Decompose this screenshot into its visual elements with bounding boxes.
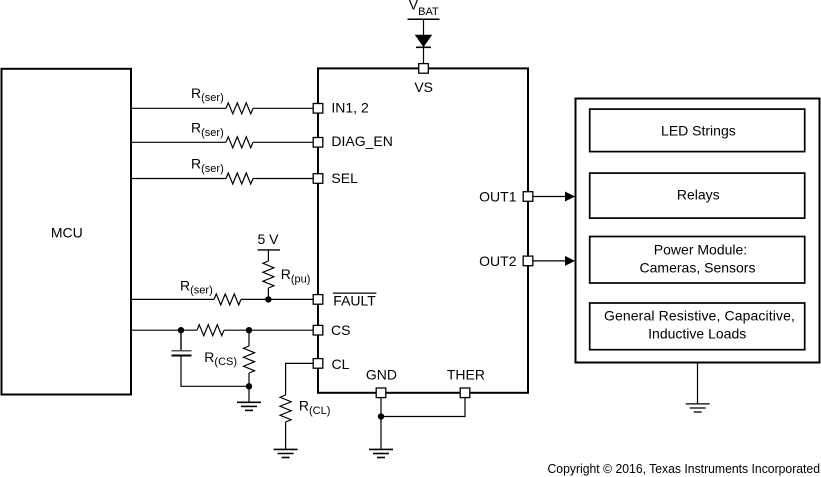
pin GND (366, 367, 397, 398)
pin VS (414, 64, 433, 95)
diode D1 (416, 35, 432, 47)
svg-text:MCU: MCU (51, 225, 83, 241)
MCU block (2, 69, 132, 395)
resistor on CS net (197, 325, 224, 336)
svg-text:CS: CS (331, 322, 350, 338)
wire diode cathode to VS pin (423, 47, 425, 63)
ground (R(CL)) (274, 449, 298, 457)
pin CL (313, 356, 349, 372)
pin DIAG_EN (313, 133, 393, 149)
svg-text:SEL: SEL (331, 170, 358, 186)
svg-text:Power Module:: Power Module: (654, 241, 747, 257)
svg-text:GND: GND (366, 367, 397, 383)
pin OUT2 (479, 253, 533, 269)
svg-text:DIAG_EN: DIAG_EN (331, 133, 392, 149)
resistor R(ser) on FAULT (180, 277, 241, 305)
svg-text:R(CL): R(CL) (299, 398, 331, 417)
svg-text:Inductive Loads: Inductive Loads (648, 325, 746, 341)
wire MCU to CS net (131, 329, 197, 331)
resistor R(CS) (204, 330, 254, 386)
wire junction to ground (380, 417, 382, 450)
loads outer box (576, 99, 820, 363)
wire THER pin down and across to GND (381, 398, 465, 417)
wire CS junction to capacitor (180, 330, 182, 351)
pin OUT1 (479, 189, 533, 205)
svg-text:IN1, 2: IN1, 2 (331, 99, 369, 115)
svg-text:Relays: Relays (677, 186, 720, 202)
supply V_BAT (408, 0, 440, 19)
svg-text:5 V: 5 V (258, 231, 280, 247)
pin SEL (313, 170, 358, 186)
svg-text:OUT1: OUT1 (479, 189, 517, 205)
svg-text:R(ser): R(ser) (191, 120, 224, 139)
load box General Loads (590, 303, 805, 350)
wire junction to ground (248, 386, 250, 402)
wire R(CL) to ground (285, 422, 287, 449)
svg-text:OUT2: OUT2 (479, 253, 517, 269)
junction CS / capacitor (178, 327, 184, 333)
pin IN1,2 (313, 99, 369, 115)
wire 5V bar to R(pu) (267, 250, 269, 261)
wire OUT1 to load box (533, 196, 566, 198)
wire resistor to IN1,2 pin (253, 107, 313, 109)
wire MCU to resistor (DIAG_EN net) (131, 141, 226, 143)
resistor R(CL) (280, 395, 330, 422)
wire resistor to DIAG_EN pin (253, 141, 313, 143)
arrowhead OUT2 (565, 256, 575, 266)
resistor R(ser) on SEL (191, 156, 253, 185)
wire loads box to ground (697, 363, 699, 404)
svg-text:LED Strings: LED Strings (661, 123, 736, 139)
svg-text:Copyright © 2016, Texas Instru: Copyright © 2016, Texas Instruments Inco… (548, 461, 821, 476)
load box LED Strings (590, 109, 805, 152)
ground (loads box) (686, 404, 710, 412)
wire R(pu) to FAULT net (267, 288, 269, 299)
ground (GND pin) (369, 449, 393, 457)
wire capacitor to bottom rail (181, 355, 249, 386)
svg-text:General Resistive, Capacitive: General Resistive, Capacitive, (604, 307, 795, 323)
wire CL pin to R(CL) (286, 363, 313, 395)
junction GND / THER (378, 413, 384, 419)
resistor R(ser) on IN1,2 (191, 85, 253, 114)
pin THER (447, 367, 485, 398)
load box Relays (590, 173, 805, 218)
arrowhead OUT1 (565, 192, 575, 202)
junction FAULT / R(pu) (265, 296, 271, 302)
load box Power Module (590, 237, 805, 284)
wire MCU to resistor (FAULT net) (131, 298, 214, 300)
wire VBAT bar to diode anode (423, 19, 425, 35)
svg-text:R(ser): R(ser) (180, 277, 213, 296)
wire resistor to SEL pin (253, 178, 313, 180)
wire MCU to resistor (IN1,2 net) (131, 107, 226, 109)
svg-text:R(ser): R(ser) (191, 156, 224, 175)
wire resistor to FAULT pin (241, 298, 313, 300)
svg-text:R(ser): R(ser) (191, 85, 224, 104)
resistor R(pu) (263, 261, 310, 288)
svg-text:THER: THER (447, 367, 485, 383)
junction R(CS) / capacitor / ground (246, 383, 252, 389)
wire OUT2 to load box (533, 260, 566, 262)
wire MCU to resistor (SEL net) (131, 178, 226, 180)
ground (CS network) (237, 402, 261, 410)
svg-text:Cameras, Sensors: Cameras, Sensors (640, 259, 756, 275)
junction CS / R(CS) (246, 327, 252, 333)
svg-text:VBAT: VBAT (409, 0, 439, 18)
pin CS (313, 322, 350, 338)
svg-text:VS: VS (414, 79, 433, 95)
svg-text:CL: CL (332, 356, 350, 372)
wire resistor to CS pin (224, 329, 313, 331)
resistor R(ser) on DIAG_EN (191, 120, 253, 148)
capacitor C1 (172, 351, 192, 356)
svg-text:R(pu): R(pu) (281, 266, 311, 285)
wire GND pin down (380, 398, 382, 417)
IC power switch U1 (318, 68, 528, 392)
svg-text:R(CS): R(CS) (204, 349, 237, 368)
svg-text:FAULT: FAULT (333, 293, 376, 309)
pin FAULT (313, 293, 376, 309)
supply 5 V (258, 231, 281, 250)
